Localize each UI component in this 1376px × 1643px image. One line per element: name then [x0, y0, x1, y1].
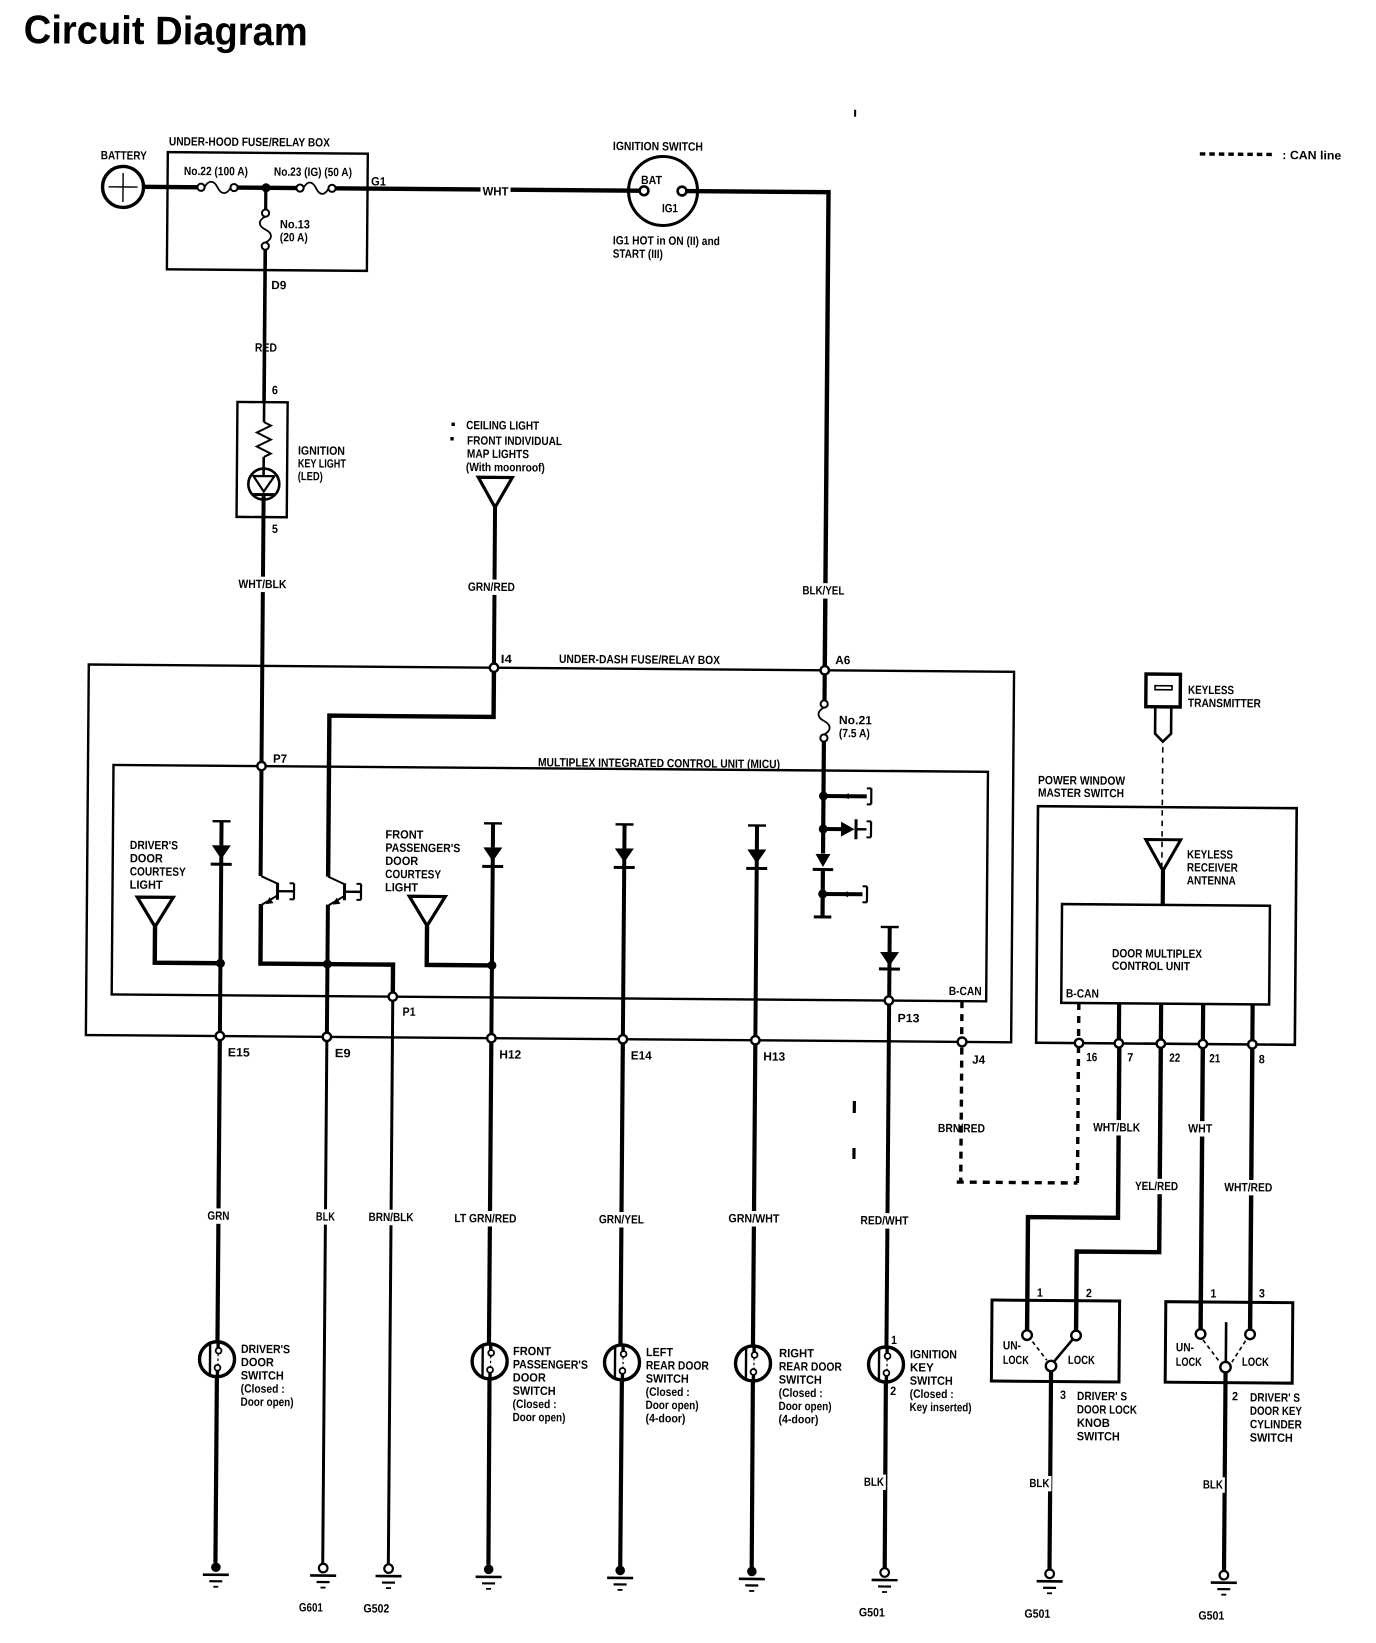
svg-text:22: 22 — [1169, 1051, 1180, 1065]
svg-text:WHT: WHT — [482, 184, 509, 198]
svg-text:B-CAN: B-CAN — [949, 984, 982, 998]
svg-text:UN-: UN- — [1003, 1338, 1021, 1352]
svg-text:H13: H13 — [763, 1050, 785, 1064]
svg-text:G502: G502 — [363, 1601, 389, 1615]
svg-text:WHT/BLK: WHT/BLK — [1093, 1120, 1140, 1134]
svg-text:SWITCH: SWITCH — [1250, 1431, 1293, 1445]
svg-text:No.23 (IG) (50 A): No.23 (IG) (50 A) — [274, 165, 352, 180]
svg-text:TRANSMITTER: TRANSMITTER — [1188, 696, 1261, 711]
svg-text:UNDER-HOOD FUSE/RELAY BOX: UNDER-HOOD FUSE/RELAY BOX — [169, 134, 330, 149]
svg-text:H12: H12 — [499, 1047, 521, 1061]
svg-text:MASTER SWITCH: MASTER SWITCH — [1038, 786, 1124, 801]
svg-text:G1: G1 — [371, 174, 386, 188]
svg-text:(7.5 A): (7.5 A) — [839, 726, 870, 740]
svg-text:2: 2 — [890, 1384, 896, 1398]
svg-text:No.22 (100 A): No.22 (100 A) — [184, 164, 248, 179]
svg-text:LOCK: LOCK — [1003, 1353, 1029, 1367]
svg-text:LT GRN/RED: LT GRN/RED — [454, 1211, 516, 1225]
svg-text:RED/WHT: RED/WHT — [860, 1213, 909, 1227]
svg-text:IGNITION: IGNITION — [910, 1347, 957, 1361]
svg-text:P7: P7 — [273, 752, 287, 766]
svg-text:SWITCH: SWITCH — [1077, 1429, 1120, 1443]
svg-text:G601: G601 — [299, 1600, 323, 1614]
svg-text:G501: G501 — [1024, 1607, 1050, 1621]
svg-text:Door open): Door open) — [646, 1398, 699, 1412]
svg-text:DRIVER' S: DRIVER' S — [1077, 1389, 1127, 1403]
svg-text:DOOR LOCK: DOOR LOCK — [1077, 1402, 1137, 1416]
svg-text:(Closed :: (Closed : — [646, 1385, 690, 1399]
svg-text:GRN/RED: GRN/RED — [468, 580, 515, 594]
svg-text:DOOR: DOOR — [513, 1370, 546, 1384]
svg-text:B-CAN: B-CAN — [1066, 986, 1099, 1000]
svg-text:2: 2 — [1086, 1286, 1092, 1300]
svg-text:BLK: BLK — [316, 1210, 335, 1224]
svg-text:UNDER-DASH FUSE/RELAY BOX: UNDER-DASH FUSE/RELAY BOX — [559, 652, 720, 667]
svg-text:IG1: IG1 — [662, 201, 678, 215]
svg-text:Door open): Door open) — [512, 1410, 565, 1424]
svg-text:(4-door): (4-door) — [778, 1412, 818, 1426]
svg-text:START (III): START (III) — [613, 247, 663, 261]
svg-text:SWITCH: SWITCH — [646, 1372, 689, 1386]
svg-text:E14: E14 — [631, 1048, 652, 1062]
svg-text:BRN/BLK: BRN/BLK — [368, 1210, 413, 1224]
svg-text:1: 1 — [1210, 1287, 1216, 1301]
svg-text:16: 16 — [1086, 1050, 1097, 1064]
svg-text:(Closed :: (Closed : — [910, 1387, 954, 1401]
svg-text:(With moonroof): (With moonroof) — [466, 460, 545, 475]
svg-text:SWITCH: SWITCH — [779, 1373, 822, 1387]
svg-text:(Closed :: (Closed : — [779, 1386, 823, 1400]
svg-text:CEILING LIGHT: CEILING LIGHT — [466, 418, 540, 433]
svg-text:FRONT: FRONT — [385, 827, 424, 841]
svg-text:GRN/WHT: GRN/WHT — [728, 1211, 780, 1225]
svg-text:DOOR: DOOR — [241, 1355, 274, 1369]
svg-text:DRIVER' S: DRIVER' S — [1250, 1390, 1300, 1404]
svg-text:BRN/RED: BRN/RED — [938, 1121, 985, 1135]
svg-text:WHT/BLK: WHT/BLK — [238, 577, 286, 591]
svg-text:Circuit Diagram: Circuit Diagram — [24, 8, 308, 54]
svg-text:2: 2 — [1232, 1389, 1238, 1403]
svg-text:1: 1 — [891, 1333, 897, 1347]
svg-text:DOOR KEY: DOOR KEY — [1250, 1404, 1302, 1418]
svg-text:GRN/YEL: GRN/YEL — [599, 1212, 644, 1226]
svg-text:3: 3 — [1060, 1388, 1066, 1402]
svg-text:BATTERY: BATTERY — [101, 148, 147, 162]
svg-text:COURTESY: COURTESY — [130, 864, 186, 878]
svg-text:I4: I4 — [501, 652, 512, 666]
svg-text:LOCK: LOCK — [1068, 1353, 1095, 1367]
svg-text:MAP LIGHTS: MAP LIGHTS — [467, 447, 529, 461]
svg-text:E9: E9 — [335, 1046, 351, 1060]
svg-text:GRN: GRN — [207, 1209, 229, 1223]
svg-text:BLK: BLK — [1203, 1477, 1223, 1491]
svg-text:E15: E15 — [228, 1045, 250, 1059]
svg-text:Door open): Door open) — [241, 1395, 294, 1409]
svg-text:BLK/YEL: BLK/YEL — [802, 583, 844, 597]
svg-text:CYLINDER: CYLINDER — [1250, 1417, 1302, 1431]
svg-text:ANTENNA: ANTENNA — [1187, 873, 1236, 887]
svg-text:21: 21 — [1209, 1051, 1220, 1065]
svg-text:G501: G501 — [1198, 1608, 1224, 1622]
svg-text:J4: J4 — [972, 1053, 985, 1067]
svg-text:P1: P1 — [403, 1005, 416, 1019]
svg-text:6: 6 — [272, 383, 278, 397]
svg-text:BLK: BLK — [864, 1475, 884, 1489]
svg-text:5: 5 — [272, 522, 278, 536]
svg-text:LOCK: LOCK — [1176, 1355, 1202, 1369]
svg-text:DRIVER'S: DRIVER'S — [130, 838, 178, 852]
svg-text:YEL/RED: YEL/RED — [1135, 1179, 1178, 1193]
svg-text:P13: P13 — [897, 1011, 919, 1025]
svg-text:UN-: UN- — [1176, 1340, 1194, 1354]
svg-text:RED: RED — [255, 341, 277, 355]
svg-text:Key inserted): Key inserted) — [910, 1400, 972, 1414]
svg-text:LOCK: LOCK — [1242, 1355, 1269, 1369]
svg-text:LIGHT: LIGHT — [130, 878, 164, 892]
svg-text:DRIVER'S: DRIVER'S — [241, 1342, 290, 1356]
svg-text:IGNITION SWITCH: IGNITION SWITCH — [613, 139, 703, 154]
svg-text:(4-door): (4-door) — [645, 1411, 685, 1425]
svg-text:8: 8 — [1259, 1052, 1265, 1066]
svg-text:(Closed :: (Closed : — [241, 1382, 285, 1396]
svg-text:SWITCH: SWITCH — [241, 1368, 284, 1382]
svg-text:7: 7 — [1127, 1050, 1133, 1064]
svg-text:A6: A6 — [835, 653, 850, 667]
svg-text:G501: G501 — [859, 1605, 885, 1619]
svg-text:SWITCH: SWITCH — [910, 1374, 953, 1388]
svg-text:DOOR: DOOR — [385, 854, 418, 868]
svg-text:LIGHT: LIGHT — [385, 880, 419, 894]
svg-text:BAT: BAT — [641, 173, 663, 187]
svg-text:MULTIPLEX INTEGRATED CONTROL U: MULTIPLEX INTEGRATED CONTROL UNIT (MICU) — [538, 755, 780, 771]
svg-text:1: 1 — [1037, 1286, 1043, 1300]
svg-text:WHT/RED: WHT/RED — [1224, 1180, 1272, 1194]
svg-text:FRONT: FRONT — [513, 1344, 552, 1358]
svg-text:RIGHT: RIGHT — [779, 1346, 815, 1360]
svg-text:3: 3 — [1259, 1286, 1265, 1300]
svg-text:(20 A): (20 A) — [280, 230, 308, 244]
svg-text:DOOR: DOOR — [130, 851, 163, 865]
svg-text:BLK: BLK — [1029, 1476, 1049, 1490]
svg-text:(LED): (LED) — [298, 469, 323, 483]
svg-text:D9: D9 — [271, 278, 286, 292]
svg-text:LEFT: LEFT — [646, 1345, 674, 1359]
svg-text:(Closed :: (Closed : — [513, 1397, 557, 1411]
svg-text:CONTROL UNIT: CONTROL UNIT — [1112, 959, 1191, 974]
svg-text:: CAN line: : CAN line — [1282, 148, 1341, 162]
svg-text:Door open): Door open) — [779, 1399, 832, 1413]
svg-text:SWITCH: SWITCH — [513, 1384, 556, 1398]
svg-text:KEY: KEY — [910, 1360, 934, 1374]
svg-text:KNOB: KNOB — [1077, 1416, 1110, 1430]
svg-text:WHT: WHT — [1188, 1121, 1213, 1135]
